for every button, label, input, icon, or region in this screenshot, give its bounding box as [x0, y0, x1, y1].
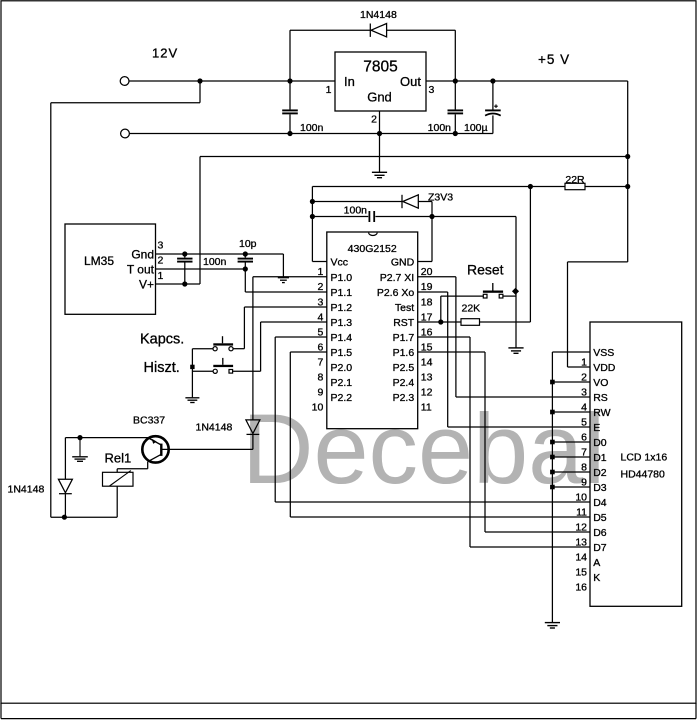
wire LM35 Tout: [156, 268, 246, 270]
svg-text:P2.3: P2.3: [393, 392, 415, 404]
svg-text:19: 19: [421, 281, 433, 293]
svg-text:HD44780: HD44780: [621, 469, 666, 481]
svg-text:P2.4: P2.4: [393, 377, 415, 389]
svg-text:100n: 100n: [428, 122, 452, 134]
svg-text:D6: D6: [593, 527, 607, 539]
junction D0 gnd: [550, 440, 555, 445]
svg-text:T out: T out: [127, 263, 155, 277]
svg-text:18: 18: [421, 296, 433, 308]
junction D3 gnd: [550, 485, 555, 490]
svg-text:15: 15: [575, 566, 587, 578]
wire RST stub: [418, 321, 461, 323]
wire +5V right rail down: [627, 81, 629, 262]
wire P1.4 to LCD D4: [275, 336, 327, 338]
resistor R1 22R: [565, 183, 585, 189]
svg-text:P1.0: P1.0: [331, 272, 353, 284]
terminal 12V-: [121, 129, 130, 138]
svg-text:Reset: Reset: [467, 262, 504, 278]
diode D4 1N4148 flyback: [58, 479, 72, 493]
wire LM35 V+: [156, 283, 201, 285]
svg-text:V+: V+: [139, 278, 154, 292]
wire reset-gnd riser: [515, 217, 517, 348]
svg-text:2: 2: [317, 281, 323, 293]
switch SW-Hiszt: [213, 365, 233, 367]
svg-text:Test: Test: [395, 302, 414, 314]
svg-text:430G2152: 430G2152: [348, 243, 397, 255]
wire flyback top: [64, 438, 66, 480]
ground buttons: [185, 397, 199, 399]
capacitor C4 100n mcu: [368, 211, 370, 222]
junction emitter gnd stub: [77, 435, 82, 440]
svg-text:22R: 22R: [565, 174, 585, 186]
junction mcu gnd riser: [429, 214, 434, 219]
junction +5V / 22R: [625, 184, 630, 189]
svg-text:P1.4: P1.4: [331, 332, 353, 344]
ground reset net: [508, 347, 523, 349]
wire RW stub: [552, 411, 590, 413]
wire D0 stub: [552, 441, 590, 443]
wire diode top right: [387, 29, 456, 31]
polarity mark 100u: [494, 105, 498, 107]
relay Rel1 coil box: [103, 472, 134, 486]
svg-text:22K: 22K: [462, 303, 481, 315]
junction VO gnd: [550, 380, 555, 385]
wire VDD stub: [568, 366, 591, 368]
capacitor C5 100n lm35: [184, 254, 186, 258]
wire P2.7 XI to LCD RS: [418, 276, 456, 278]
junction D2 gnd: [550, 470, 555, 475]
svg-text:P1.2: P1.2: [331, 302, 353, 314]
svg-text:P1.1: P1.1: [331, 287, 353, 299]
capacitor C6 10p: [244, 254, 246, 258]
svg-text:P1.5: P1.5: [331, 347, 353, 359]
wire D3 stub: [552, 486, 590, 488]
svg-text:1N4148: 1N4148: [196, 422, 233, 434]
wire LM35 Gnd: [156, 253, 284, 255]
junction +5V / LM35 supply: [625, 154, 630, 159]
junction 22R / 22K riser: [528, 184, 533, 189]
sensor LM35 box: [65, 224, 156, 314]
ground LM35 small: [278, 277, 289, 279]
junction cap1 bottom: [287, 131, 292, 136]
svg-text:Gnd: Gnd: [131, 248, 154, 262]
wire left rail down to relay: [50, 103, 52, 518]
junction 100n lm35 bottom: [182, 281, 187, 286]
svg-text:5: 5: [581, 416, 587, 428]
svg-text:In: In: [344, 74, 355, 89]
svg-text:1N4148: 1N4148: [8, 484, 45, 496]
svg-text:P2.5: P2.5: [393, 362, 415, 374]
wire VO stub: [552, 381, 590, 383]
svg-text:3: 3: [158, 239, 164, 251]
diode D1 1N4148: [369, 24, 371, 37]
svg-text:14: 14: [575, 551, 587, 563]
svg-text:Out: Out: [400, 74, 421, 89]
wire P1.2 to Kapcs: [244, 306, 326, 308]
junction 10p top: [243, 251, 248, 256]
junction D1 gnd: [550, 455, 555, 460]
wire diode top left: [290, 29, 370, 31]
wire D1 stub: [552, 456, 590, 458]
junction RW gnd: [550, 410, 555, 415]
svg-text:7805: 7805: [363, 59, 397, 76]
svg-text:D5: D5: [593, 512, 607, 524]
wire Vcc stub: [312, 261, 326, 263]
junction cap2 bottom: [453, 131, 458, 136]
junction flyback bottom: [62, 515, 67, 520]
svg-text:P1.7: P1.7: [393, 332, 415, 344]
svg-text:K: K: [593, 572, 600, 584]
junction RST / reset button: [438, 319, 443, 324]
junction 7805 gnd / 12V- rail: [377, 131, 382, 136]
svg-text:VO: VO: [593, 377, 608, 389]
junction cap1 top: [287, 78, 292, 83]
svg-text:9: 9: [317, 386, 323, 398]
svg-text:3: 3: [581, 386, 587, 398]
svg-text:100µ: 100µ: [464, 122, 488, 134]
mcu 430G2152 box: [327, 232, 418, 429]
svg-text:D1: D1: [593, 452, 607, 464]
wire 7805 Gnd down: [379, 111, 381, 172]
svg-text:Gnd: Gnd: [367, 90, 392, 105]
capacitor C1 100n input: [289, 81, 291, 109]
svg-text:D0: D0: [593, 437, 607, 449]
regulator 7805 box: [335, 52, 426, 111]
svg-text:12V: 12V: [152, 46, 178, 61]
wire Hiszt left: [192, 370, 213, 372]
wire Kapcs left to gnd col: [192, 348, 213, 350]
svg-text:Hiszt.: Hiszt.: [144, 360, 180, 376]
terminal 12V+: [120, 77, 129, 86]
svg-text:Rel1: Rel1: [105, 451, 132, 466]
svg-text:RW: RW: [593, 407, 610, 419]
ground lcd VSS: [545, 622, 560, 624]
wire zener left seg: [312, 201, 402, 203]
ground 7805: [372, 171, 387, 173]
svg-text:11: 11: [421, 401, 432, 413]
wire zener right seg: [418, 201, 432, 203]
svg-text:14: 14: [421, 356, 433, 368]
wire emitter gnd stem: [79, 438, 81, 457]
junction reset / gnd riser: [512, 288, 519, 295]
wire P1.7 to LCD D7: [418, 336, 470, 338]
wire reset button left: [440, 296, 442, 322]
wire VSS to gnd col: [552, 351, 590, 353]
svg-text:P1.3: P1.3: [331, 317, 353, 329]
wire Tout to P1.1: [244, 269, 246, 292]
svg-text:11: 11: [576, 506, 587, 518]
wire 100n mcu right seg: [375, 216, 516, 218]
svg-text:P2.2: P2.2: [331, 392, 353, 404]
svg-text:2: 2: [158, 255, 164, 267]
svg-text:16: 16: [575, 581, 587, 593]
svg-text:100n: 100n: [344, 205, 368, 217]
svg-text:3: 3: [429, 84, 435, 96]
junction 12V+/branch: [197, 78, 202, 83]
svg-text:2: 2: [371, 114, 377, 126]
svg-text:1: 1: [158, 270, 164, 282]
svg-text:+5 V: +5 V: [538, 52, 570, 67]
svg-text:P1.6: P1.6: [393, 347, 415, 359]
wire relay to 12V rail: [116, 486, 118, 517]
diode D3 1N4148 base: [246, 420, 260, 434]
svg-text:P2.7 XI: P2.7 XI: [380, 272, 414, 284]
wire MCU GND pin riser: [431, 217, 433, 262]
capacitor C3 100u electrolytic: [492, 81, 494, 110]
svg-text:LCD 1x16: LCD 1x16: [621, 452, 668, 464]
svg-text:A: A: [593, 557, 600, 569]
wire P1.5 to LCD D5: [290, 351, 327, 353]
wire diode to base: [252, 435, 254, 450]
wire P2.6 Xo to LCD E: [418, 291, 448, 293]
svg-text:BC337: BC337: [133, 415, 165, 427]
mcu notch: [369, 233, 378, 236]
switch SW-Kapcs: [213, 343, 233, 345]
wire +5V to LM35 V+: [200, 156, 628, 158]
svg-text:1: 1: [326, 84, 332, 96]
svg-text:RST: RST: [393, 317, 415, 329]
svg-text:20: 20: [421, 266, 433, 278]
resistor R2 22K: [461, 319, 480, 326]
junction 100n lm35 top: [182, 251, 187, 256]
wire flyback bottom: [64, 494, 66, 517]
junction Hiszt gnd: [190, 365, 194, 369]
diode D2 Z3V3 zener: [401, 195, 403, 208]
wire P1.0 to base diode: [253, 276, 327, 278]
svg-text:100n: 100n: [203, 256, 227, 268]
wire collector to relay: [147, 462, 149, 469]
svg-text:1N4148: 1N4148: [360, 9, 397, 21]
wire D2 stub: [552, 471, 590, 473]
wire 7805 Out to +5V corner: [426, 80, 628, 82]
junction 10p bottom / P1.1 branch: [243, 266, 248, 271]
svg-text:E: E: [593, 422, 600, 434]
wire reset button right: [503, 295, 516, 297]
junction cap2 top: [453, 78, 458, 83]
wire 22K to Vcc net: [480, 321, 531, 323]
svg-text:13: 13: [421, 371, 433, 383]
svg-text:1: 1: [317, 266, 323, 278]
svg-text:Kapcs.: Kapcs.: [140, 331, 184, 347]
capacitor C2 100n output: [454, 81, 456, 109]
svg-text:D2: D2: [593, 467, 607, 479]
junction cap3 top: [490, 78, 495, 83]
wire branch down-left from 12V+: [199, 81, 201, 103]
svg-text:10p: 10p: [239, 238, 257, 250]
svg-text:D7: D7: [593, 542, 607, 554]
svg-text:Vcc: Vcc: [331, 257, 349, 269]
svg-text:P2.6 Xo: P2.6 Xo: [377, 287, 415, 299]
wire 12V- rail: [129, 133, 493, 135]
junction zener wire left: [310, 199, 315, 204]
svg-text:P2.0: P2.0: [331, 362, 353, 374]
switch SW-Reset: [483, 291, 503, 293]
svg-text:13: 13: [575, 536, 587, 548]
wire VDD feed: [568, 261, 628, 263]
svg-text:12: 12: [575, 521, 587, 533]
wire P1.6 to LCD D6: [418, 351, 485, 353]
svg-text:LM35: LM35: [84, 254, 114, 268]
svg-text:GND: GND: [391, 257, 415, 269]
wire 12V+ to 7805 In: [129, 80, 335, 82]
junction 100n mcu left: [310, 214, 315, 219]
svg-text:12: 12: [421, 386, 433, 398]
transistor Q1 BC337: [142, 436, 168, 462]
lcd HD44780 box: [590, 322, 682, 606]
svg-text:RS: RS: [593, 392, 608, 404]
svg-text:D3: D3: [593, 482, 607, 494]
svg-text:7: 7: [317, 356, 323, 368]
svg-text:VSS: VSS: [593, 347, 614, 359]
svg-text:P2.1: P2.1: [331, 377, 353, 389]
wire 100n mcu left seg: [312, 216, 368, 218]
svg-text:10: 10: [575, 491, 587, 503]
wire 22R to Vcc corner: [585, 186, 628, 188]
svg-text:100n: 100n: [300, 122, 324, 134]
svg-text:10: 10: [312, 401, 324, 413]
ground emitter: [72, 456, 88, 458]
svg-text:D4: D4: [593, 497, 607, 509]
wire P1.3 to Hiszt: [261, 321, 327, 323]
wire emitter to gnd: [65, 437, 147, 439]
svg-text:VDD: VDD: [593, 362, 616, 374]
svg-text:8: 8: [317, 371, 323, 383]
